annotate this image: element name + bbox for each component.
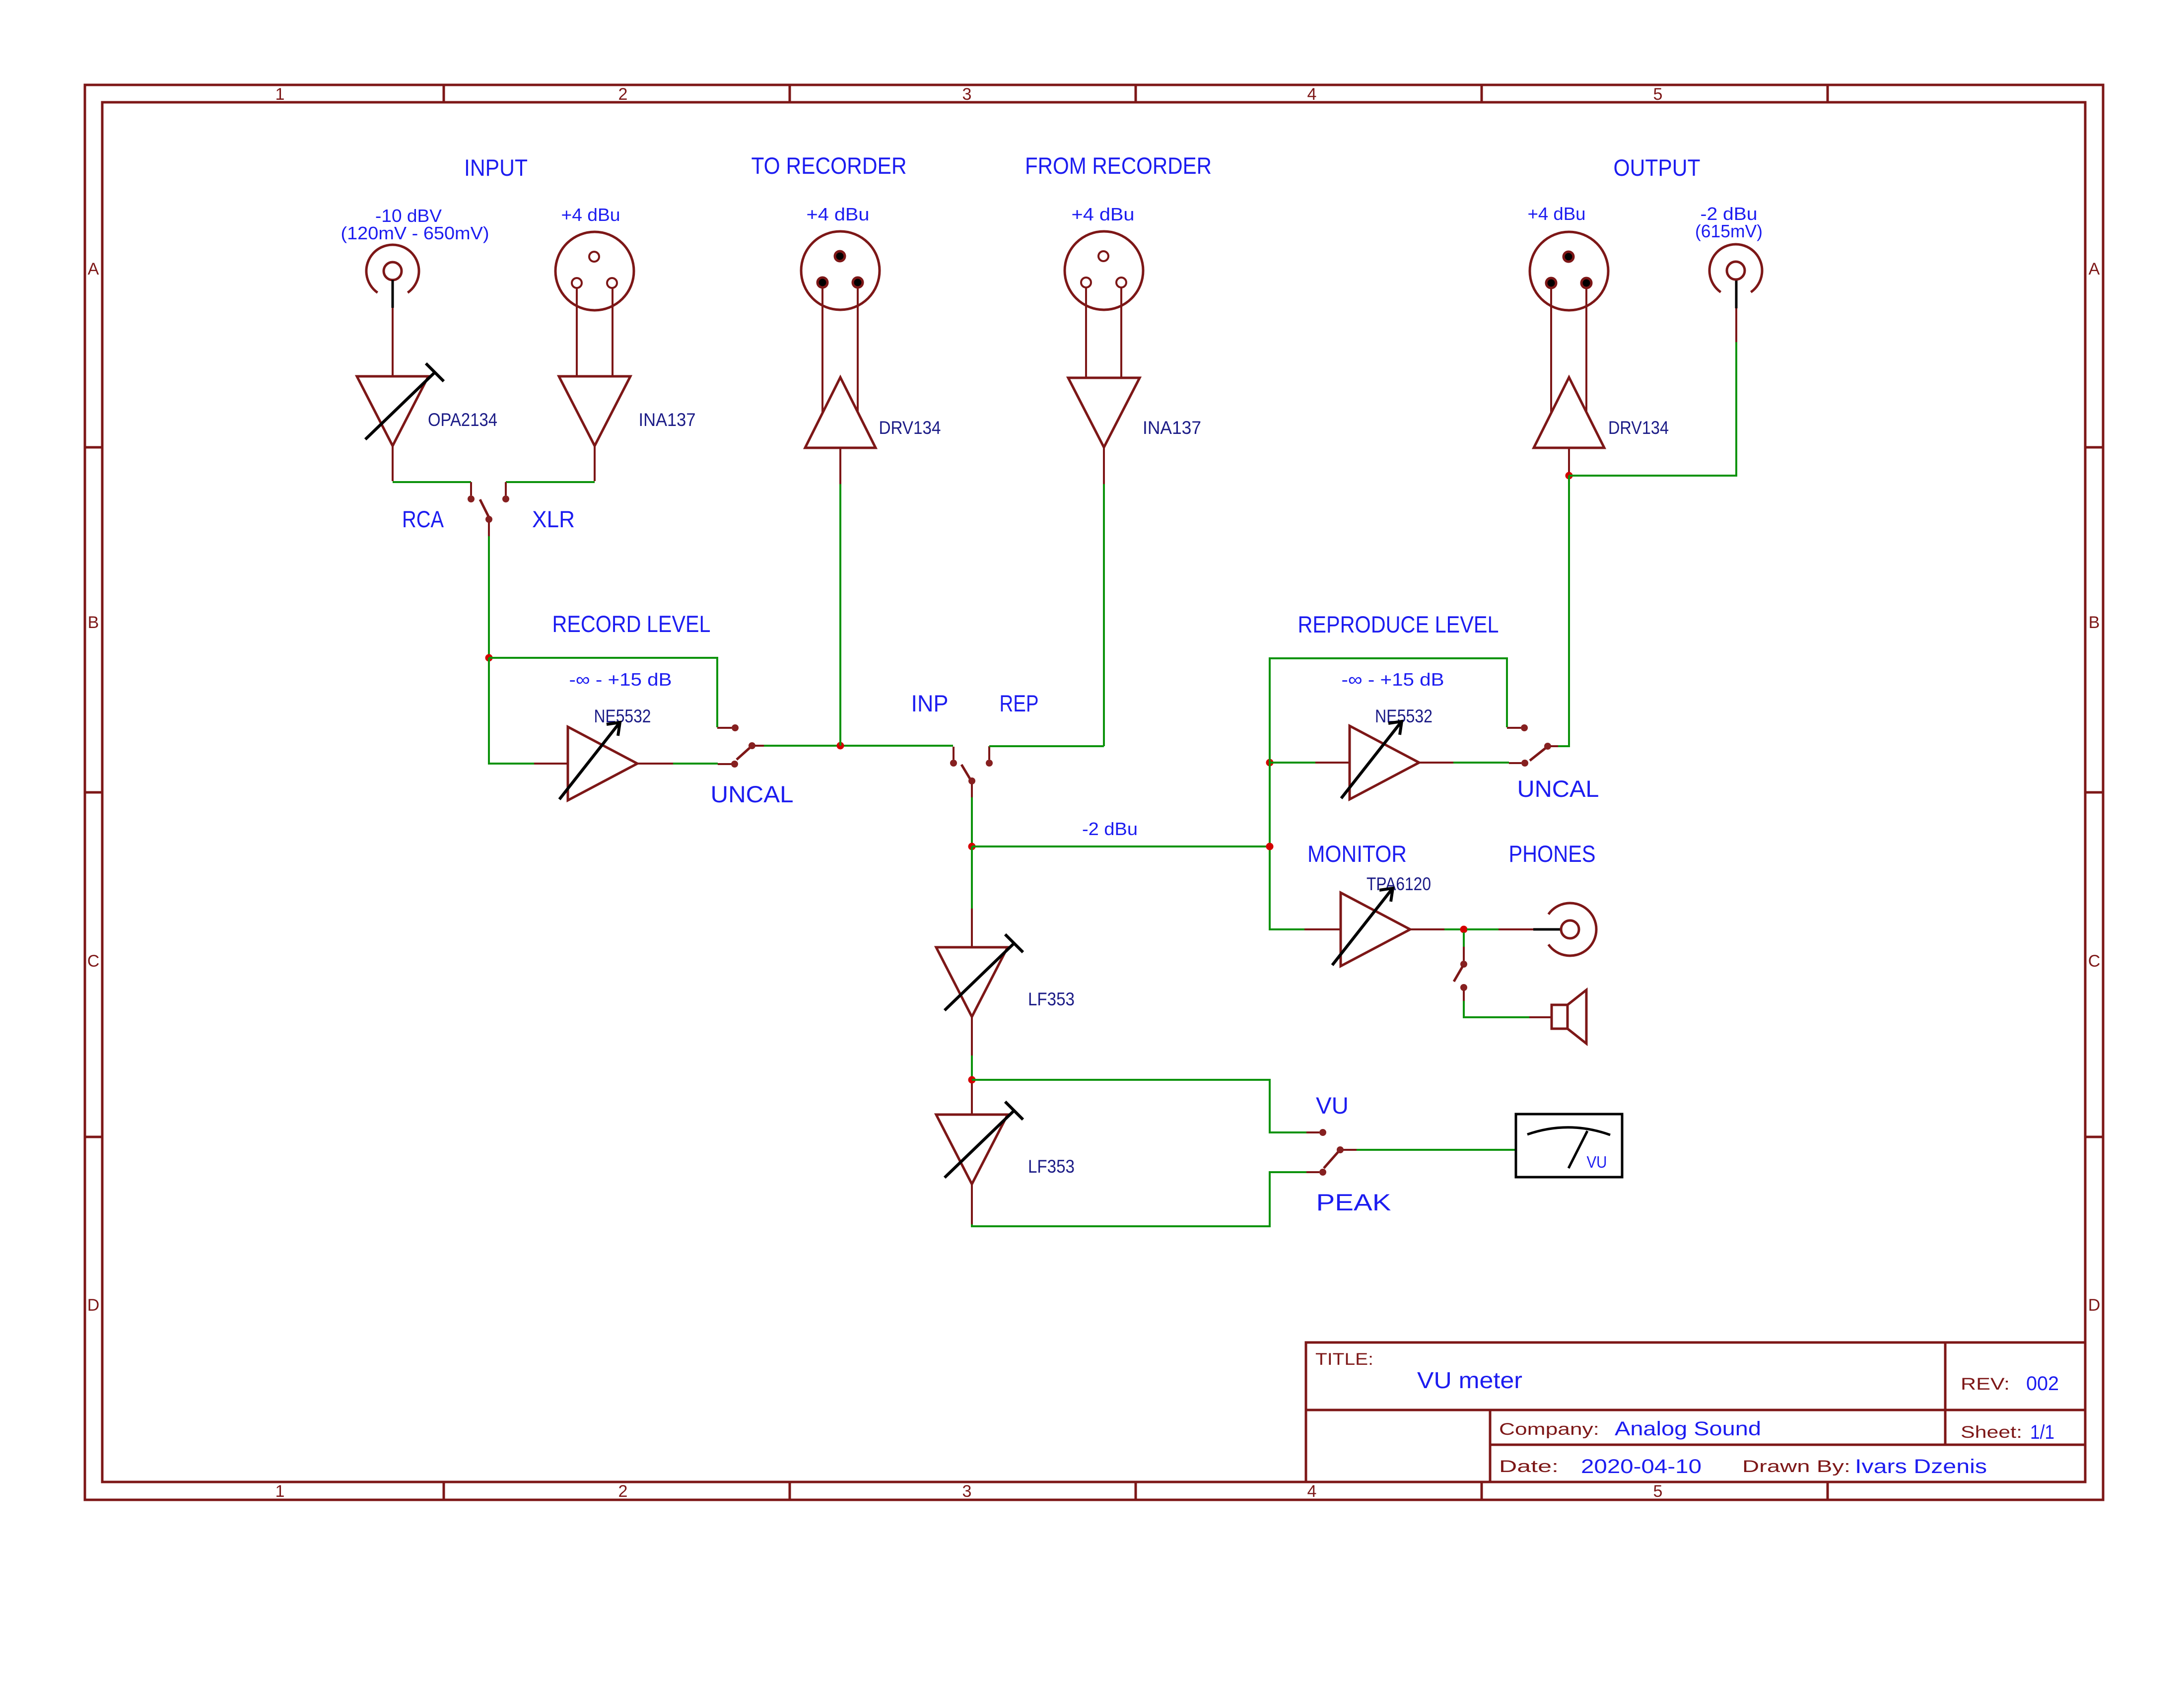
connector RCA output jack — [1709, 244, 1762, 292]
junction record input — [485, 654, 493, 662]
svg-text:Drawn By:: Drawn By: — [1742, 1457, 1850, 1476]
svg-text:REV:: REV: — [1961, 1375, 2010, 1394]
wire output node to RCA out — [1569, 342, 1736, 476]
svg-text:+4 dBu: +4 dBu — [807, 204, 870, 224]
connector XLR male to recorder — [801, 231, 880, 310]
svg-text:OPA2134: OPA2134 — [428, 410, 497, 430]
wire reproduce bypass top — [1270, 658, 1507, 763]
svg-text:1/1: 1/1 — [2030, 1421, 2054, 1443]
junction output node — [1566, 472, 1573, 480]
svg-text:MONITOR: MONITOR — [1307, 841, 1407, 867]
svg-text:002: 002 — [2026, 1373, 2059, 1395]
wire phones node to jack — [1467, 928, 1499, 930]
wire S3 to LF353 VU driver — [971, 846, 973, 909]
svg-text:FROM RECORDER: FROM RECORDER — [1025, 152, 1212, 179]
junction VU node — [968, 1076, 976, 1084]
svg-text:RECORD LEVEL: RECORD LEVEL — [552, 611, 711, 637]
drawing frame inner border — [102, 102, 2085, 1482]
VU meter M1 — [1516, 1114, 1622, 1177]
svg-text:REP: REP — [1000, 690, 1039, 716]
wire XLR pin3 stub — [857, 288, 859, 412]
svg-text:C: C — [87, 952, 100, 971]
svg-text:RCA: RCA — [402, 506, 444, 532]
junction phones node — [1460, 926, 1468, 933]
svg-text:REPRODUCE LEVEL: REPRODUCE LEVEL — [1298, 611, 1499, 637]
RCA input pin stem — [392, 280, 394, 308]
wire OPA2134 output — [392, 446, 394, 481]
wire phones node to speaker switch — [1463, 932, 1465, 947]
svg-text:-∞ - +15 dB: -∞ - +15 dB — [569, 669, 672, 690]
svg-text:Date:: Date: — [1499, 1457, 1559, 1476]
wire LF353 peak output — [971, 1184, 973, 1224]
svg-text:LF353: LF353 — [1028, 989, 1075, 1009]
svg-text:Sheet:: Sheet: — [1961, 1423, 2022, 1442]
wire XLR leg to switch S1 — [506, 481, 595, 483]
svg-text:OUTPUT: OUTPUT — [1614, 154, 1701, 181]
wire XLR pin3 stub — [1585, 288, 1587, 412]
svg-text:DRV134: DRV134 — [1608, 418, 1669, 438]
frame column/row tick marks — [85, 85, 2103, 1500]
wire RCA to OPA2134 — [392, 308, 394, 376]
svg-text:VU meter: VU meter — [1417, 1367, 1522, 1393]
svg-text:NE5532: NE5532 — [594, 706, 651, 726]
switch S2 UNCAL record — [732, 724, 739, 731]
connector XLR input jack — [555, 232, 634, 310]
svg-text:Company:: Company: — [1499, 1420, 1599, 1439]
svg-text:A: A — [2089, 260, 2100, 279]
blue section labels — [402, 152, 1701, 1215]
wire NE5532 output — [637, 763, 673, 765]
op-amp U2 INA137 input receiver — [559, 376, 630, 446]
svg-text:B: B — [88, 613, 99, 632]
svg-text:UNCAL: UNCAL — [1517, 775, 1599, 802]
wire XLR pin2 stub — [1550, 288, 1552, 413]
svg-text:4: 4 — [1307, 85, 1317, 104]
wire VU node to VU contact — [972, 1080, 1306, 1132]
wire reproduce bypass stub — [1507, 727, 1521, 729]
svg-text:TPA6120: TPA6120 — [1366, 874, 1431, 894]
op-amp U7 NE5532 reproduce level — [1350, 726, 1419, 799]
wire record bypass top — [489, 658, 717, 727]
svg-text:-2 dBu: -2 dBu — [1082, 819, 1138, 839]
wire REP to INA137 output — [989, 745, 1104, 747]
drawing frame outer border — [85, 85, 2103, 1500]
wire reproduce amp input — [1270, 762, 1315, 764]
switch S3 INP/REP monitor select — [950, 760, 957, 767]
op-amp U3 NE5532 record level — [568, 727, 637, 800]
svg-text:4: 4 — [1307, 1482, 1317, 1501]
connector XLR female from recorder — [1065, 231, 1143, 310]
switch S5 speaker enable — [1460, 961, 1467, 968]
svg-text:VU: VU — [1587, 1153, 1607, 1171]
part name labels — [428, 410, 1669, 1177]
line driver U4 DRV134 — [805, 377, 876, 448]
RCA output pin stem — [1735, 280, 1738, 308]
wire TPA6120 output — [1410, 928, 1444, 930]
svg-text:(120mV - 650mV): (120mV - 650mV) — [341, 223, 489, 243]
svg-text:+4 dBu: +4 dBu — [561, 205, 620, 225]
wire REP contact stub — [988, 746, 990, 760]
svg-text:2: 2 — [618, 1482, 628, 1501]
svg-text:1: 1 — [275, 1482, 285, 1501]
receiver U5 INA137 from recorder — [1068, 378, 1140, 447]
connector phones jack — [1549, 903, 1596, 956]
line driver U6 DRV134 output — [1534, 377, 1604, 448]
driver U10 LF353 peak — [936, 1115, 1008, 1184]
frame grid labels — [87, 85, 2101, 1501]
svg-text:+4 dBu: +4 dBu — [1072, 204, 1135, 224]
svg-text:-∞ - +15 dB: -∞ - +15 dB — [1342, 669, 1444, 690]
svg-text:INA137: INA137 — [639, 410, 696, 430]
wire XLR pin3 to INA137 — [612, 288, 614, 376]
svg-text:INP: INP — [911, 690, 949, 716]
svg-text:INA137: INA137 — [1143, 418, 1201, 438]
wire RCA leg to switch S1 — [393, 481, 471, 483]
wire VU node to peak driver — [971, 1083, 973, 1115]
svg-text:3: 3 — [962, 1482, 972, 1501]
svg-text:1: 1 — [275, 85, 285, 104]
wire XLR pin3 stub — [1120, 288, 1122, 378]
wire record amp input — [489, 658, 534, 764]
wire record bypass stub — [717, 727, 732, 729]
svg-text:(615mV): (615mV) — [1695, 221, 1763, 241]
switch S4 UNCAL reproduce — [1521, 724, 1528, 731]
svg-text:XLR: XLR — [532, 506, 575, 532]
blue level annotations — [341, 204, 1763, 839]
svg-text:Ivars Dzenis: Ivars Dzenis — [1855, 1456, 1987, 1477]
connector RCA input jack — [366, 245, 419, 292]
svg-text:5: 5 — [1653, 85, 1663, 104]
svg-text:+4 dBu: +4 dBu — [1528, 204, 1586, 224]
wire XLR pin2 stub — [821, 288, 823, 413]
svg-text:VU: VU — [1316, 1092, 1349, 1119]
svg-text:D: D — [2088, 1296, 2101, 1315]
junction record/to-recorder — [837, 742, 844, 750]
svg-text:PEAK: PEAK — [1316, 1189, 1391, 1215]
wire node to INP contact — [953, 747, 955, 760]
wire reproduce node to monitor — [1270, 763, 1304, 929]
wire switch to speaker — [1464, 1001, 1529, 1017]
junction reproduce input — [1266, 759, 1274, 767]
title block grid — [1306, 1342, 2085, 1482]
wire XLR pin2 to INA137 — [576, 288, 578, 376]
svg-text:TITLE:: TITLE: — [1315, 1350, 1373, 1369]
svg-text:DRV134: DRV134 — [879, 418, 941, 438]
wire S1 common down — [488, 536, 490, 658]
wire monitor bus to reproduce — [972, 845, 1270, 847]
wire to DRV134 output riser — [839, 484, 841, 746]
svg-text:D: D — [87, 1296, 100, 1315]
svg-text:PHONES: PHONES — [1509, 841, 1596, 867]
wire S6 common to meter — [1357, 1149, 1516, 1151]
svg-text:NE5532: NE5532 — [1375, 706, 1433, 726]
wire output node down to UNCAL — [1558, 476, 1569, 746]
op-amp U1 OPA2134 variable amp — [357, 376, 428, 446]
driver U9 LF353 VU — [936, 947, 1008, 1017]
svg-text:2: 2 — [618, 85, 628, 104]
junction monitor bus — [968, 843, 976, 850]
svg-text:B: B — [2089, 613, 2100, 632]
junction monitor tap — [1266, 843, 1274, 850]
wire S2 common to node — [764, 745, 953, 747]
svg-text:A: A — [88, 260, 99, 279]
svg-text:Analog Sound: Analog Sound — [1615, 1418, 1761, 1440]
wire XLR pin2 stub — [1085, 288, 1087, 378]
speaker LS1 — [1552, 1005, 1568, 1029]
svg-text:UNCAL: UNCAL — [711, 781, 794, 807]
wire DRV134 output — [1568, 448, 1570, 473]
switch S1 RCA/XLR select — [470, 482, 472, 495]
svg-text:TO RECORDER: TO RECORDER — [751, 152, 907, 179]
wire S3 common down — [971, 797, 973, 846]
wire LF353 output — [971, 1017, 973, 1055]
headphone amp U8 TPA6120 — [1341, 893, 1410, 966]
switch S6 VU/PEAK select — [1319, 1129, 1326, 1136]
wire INA137 output — [594, 446, 596, 481]
wire NE5532 output — [1419, 762, 1453, 764]
wire INA137 output to REP — [1103, 447, 1105, 484]
svg-text:C: C — [2088, 952, 2101, 971]
svg-text:INPUT: INPUT — [464, 154, 528, 181]
svg-text:3: 3 — [962, 85, 972, 104]
svg-text:5: 5 — [1653, 1482, 1663, 1501]
connector XLR male output — [1530, 232, 1608, 310]
svg-text:2020-04-10: 2020-04-10 — [1581, 1456, 1702, 1477]
svg-text:LF353: LF353 — [1028, 1156, 1075, 1177]
